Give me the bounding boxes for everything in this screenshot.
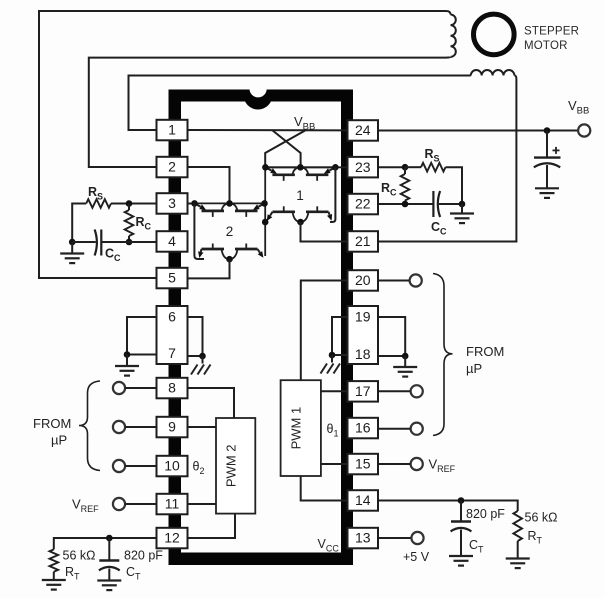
transistor pair Q1 upper (bridge 1)	[265, 166, 335, 168]
wire: pin 2 to bridge2 center	[188, 167, 230, 203]
svg-text:FROM: FROM	[33, 416, 71, 431]
svg-text:20: 20	[355, 272, 371, 288]
wire: pin18 chassis stem	[331, 355, 333, 363]
terminal pin 10 input	[113, 460, 125, 472]
wire: RT to ground	[53, 572, 55, 580]
pin 21	[348, 231, 379, 252]
wire: pin 7 right stub	[188, 355, 203, 357]
svg-text:820 pF: 820 pF	[124, 549, 163, 563]
svg-text:12: 12	[164, 530, 180, 546]
svg-text:18: 18	[355, 346, 371, 362]
svg-text:11: 11	[165, 496, 180, 512]
wire: terminal to pin 10	[125, 465, 156, 467]
junction Rs/Rc right top	[402, 164, 409, 171]
wire: pin5 loop to motor winding 1 top	[39, 11, 451, 278]
wire: pin 8 to PWM2 top	[188, 388, 235, 418]
junction CT left	[106, 535, 113, 542]
wire: bridge1 emitters to pin 21	[301, 222, 350, 242]
wire: pin 20 to PWM1 top	[301, 281, 348, 381]
IC package bottom bar	[169, 553, 354, 566]
resistor RC left	[125, 210, 134, 236]
terminal VBB	[578, 124, 590, 136]
terminal VREF right	[411, 458, 423, 470]
pin 10	[157, 456, 188, 477]
wire: winding 1 bottom to pin 2 loop	[89, 57, 451, 167]
terminal pin 17	[411, 385, 423, 397]
block PWM 2	[216, 418, 255, 514]
wire: CT left stem	[108, 538, 110, 560]
pin 24	[348, 120, 379, 141]
wire: pin 17 to PWM1	[321, 390, 348, 392]
svg-text:5: 5	[168, 270, 176, 286]
pin 5	[157, 268, 188, 289]
pin 22	[348, 194, 379, 215]
wire: RC right stubs	[404, 167, 406, 174]
wire: pin 17 to terminal	[378, 390, 411, 392]
transistor pair Q2 lower (bridge 2)	[202, 248, 225, 251]
resistor RS left	[86, 199, 111, 208]
ground CC right	[450, 214, 474, 224]
ground pins 19/18	[393, 367, 417, 377]
svg-text:56 kΩ: 56 kΩ	[525, 511, 558, 525]
pin 16	[348, 418, 379, 439]
junction pin18 right	[402, 353, 409, 360]
wire: CC right to ground node	[439, 203, 462, 205]
junction pin18 left	[329, 352, 336, 359]
IC package right bar	[341, 90, 353, 566]
pin 17	[348, 381, 379, 402]
wire: pin 14 to RT corner	[378, 501, 518, 512]
wire: pin 15 to PWM1	[321, 463, 348, 465]
pin 9	[157, 417, 188, 438]
svg-text:13: 13	[355, 530, 371, 546]
ground CT right	[449, 556, 473, 566]
capacitor C-VBB curved plate	[534, 163, 560, 167]
capacitor CC right straight plate	[432, 191, 434, 217]
pin 20	[348, 270, 379, 291]
IC orientation notch cut	[250, 89, 267, 98]
stepper motor circle	[474, 14, 515, 55]
wire: winding 2 to pin 21	[378, 76, 516, 242]
pin 3	[157, 193, 188, 214]
transistor pair Q1 lower (bridge 1)	[273, 210, 296, 213]
svg-text:6: 6	[168, 309, 176, 325]
wire: pin 14 to PWM1 bottom	[301, 476, 348, 501]
wire: bridge1 top rail to pin 23	[265, 166, 349, 168]
wire: pin 24 to VBB terminal	[378, 130, 578, 132]
svg-text:820 pF: 820 pF	[466, 507, 505, 521]
wire: pin 11 to PWM2	[188, 503, 217, 505]
IC package left bar	[169, 90, 182, 566]
wire: pin 7 left stub	[127, 354, 157, 356]
wire: RS to corner down	[446, 167, 463, 204]
svg-text:3: 3	[168, 195, 176, 211]
svg-text:2: 2	[226, 224, 234, 239]
wire: RT right to ground	[517, 541, 519, 559]
pin 1	[157, 120, 188, 141]
svg-text:22: 22	[355, 196, 371, 212]
ground RT left	[42, 580, 66, 590]
wire: pin 20 to terminal	[378, 280, 410, 282]
wire: pin 12 left to RT corner	[54, 538, 157, 549]
pin 4	[157, 231, 188, 252]
svg-text:9: 9	[168, 419, 176, 435]
capacitor CT left curved plate	[99, 567, 120, 571]
wire: pin 23 to node	[378, 166, 405, 168]
capacitor C-VBB polarized stem	[546, 131, 548, 157]
ground pins 6/7	[115, 366, 139, 376]
wire: pin 3 to bridge2 top rail	[188, 203, 195, 205]
pin box 19-18	[348, 306, 379, 364]
terminal pin 8 input	[113, 382, 125, 394]
capacitor CC right curved plate	[438, 191, 440, 217]
brace right FROM uP	[433, 274, 453, 436]
svg-text:1: 1	[296, 188, 304, 203]
wire: terminal to pin 8	[125, 387, 156, 389]
wire: X-cross left branch	[272, 130, 301, 167]
wire: pin 12 to PWM2 bottom	[188, 514, 236, 538]
svg-text:4: 4	[168, 233, 176, 249]
junction CC right	[459, 201, 466, 208]
wire: node to RS	[405, 166, 421, 168]
ground CT left	[97, 581, 121, 591]
svg-text:8: 8	[168, 380, 176, 396]
wire: bridge1 right rail	[330, 167, 335, 222]
wire: pin 4 to CC right plate	[101, 241, 156, 243]
wire: X-cross right branch	[265, 130, 306, 167]
wire: CC right ground stem	[461, 204, 463, 214]
pin 14	[348, 490, 379, 511]
chassis ground pins 6/7	[191, 365, 211, 375]
svg-text:15: 15	[355, 456, 371, 472]
capacitor C-VBB plus sign	[553, 147, 560, 154]
resistor RS right	[421, 163, 446, 172]
junction CT right	[458, 497, 465, 504]
wire: pin 19 right loop	[378, 317, 405, 356]
pin 13	[348, 528, 379, 549]
wire: CT right stem	[460, 501, 462, 522]
resistor RT left	[50, 549, 59, 571]
pin 11	[157, 494, 188, 515]
ground CC left	[60, 254, 84, 264]
svg-text:FROM: FROM	[466, 344, 504, 359]
svg-text:17: 17	[355, 383, 371, 399]
pin 12	[157, 528, 188, 549]
svg-text:µP: µP	[51, 433, 67, 448]
terminal +5V	[411, 532, 423, 544]
wire: pin 16 to terminal	[378, 428, 411, 430]
resistor RT right	[513, 511, 522, 541]
svg-text:56 kΩ: 56 kΩ	[63, 549, 96, 563]
svg-text:µP: µP	[466, 361, 482, 376]
junction RC bottom	[126, 239, 133, 246]
capacitor C-VBB top plate	[534, 156, 561, 158]
junction CC left	[69, 239, 76, 246]
wire: bridge2 left rail	[194, 203, 204, 259]
wire: bridge1 left/bridge2 right shared rail	[264, 167, 266, 256]
wire: RS right to node	[111, 203, 129, 205]
wire: terminal to pin 9	[125, 426, 156, 428]
svg-text:24: 24	[355, 122, 371, 138]
block PWM 1	[281, 380, 321, 476]
junction pin7 right	[199, 353, 206, 360]
brace left FROM uP	[79, 381, 100, 471]
svg-text:16: 16	[355, 420, 371, 436]
wire: pin 1 to pin 24 VBB line	[188, 129, 350, 131]
wire: pin18 ground stem	[404, 356, 406, 367]
svg-text:23: 23	[355, 159, 371, 175]
capacitor CC left curved plate	[95, 230, 97, 256]
wire: pin 13 to +5V terminal	[378, 537, 411, 539]
capacitor CT left top plate	[99, 559, 119, 561]
wire: CC left plate to corner	[72, 241, 96, 243]
transistor pair Q2 upper (bridge 2)	[195, 202, 265, 204]
wire: RS left to corner	[72, 204, 86, 243]
svg-text:14: 14	[355, 492, 371, 508]
junction VBB	[544, 127, 551, 134]
wire: pin 18 right stub	[378, 355, 405, 357]
node bridge1 left rail junction	[262, 219, 269, 226]
wire: pin 15 to terminal	[378, 463, 411, 465]
capacitor CT right curved plate	[451, 528, 472, 532]
pin 23	[348, 157, 379, 178]
svg-text:10: 10	[164, 458, 180, 474]
svg-text:21: 21	[355, 233, 371, 249]
wire: pin 6 left loop	[127, 317, 157, 355]
pin 2	[157, 157, 188, 178]
capacitor CT right top plate	[451, 520, 471, 522]
svg-text:+5 V: +5 V	[403, 550, 430, 564]
junction pin7 left	[124, 351, 131, 358]
junction Rs/Rc top	[126, 200, 133, 207]
wire: RC stubs	[128, 204, 130, 211]
pin 15	[348, 454, 379, 475]
terminal pin 9 input	[113, 421, 125, 433]
terminal pin 20	[410, 274, 422, 286]
wire: bridge2 emitters to pin 5	[188, 259, 230, 278]
wire: pin 9 to PWM2	[188, 426, 217, 428]
junction RC right bottom	[402, 201, 409, 208]
wire: pin 18 left stub	[332, 354, 348, 356]
wire: pin7 chassis stem	[202, 356, 204, 364]
inductor L1 motor winding 1 (vertical coil)	[451, 15, 456, 57]
svg-text:7: 7	[168, 345, 176, 361]
wire: CC ground stem	[71, 242, 73, 254]
wire: pin 6 right loop	[188, 317, 203, 356]
svg-text:MOTOR: MOTOR	[524, 40, 568, 52]
terminal VREF left	[113, 498, 125, 510]
IC orientation notch bulge	[244, 95, 273, 110]
terminal pin 16	[411, 423, 423, 435]
wire: CT left lower stem	[108, 569, 110, 581]
capacitor C-VBB lower stem	[546, 165, 548, 188]
wire: pin7 ground stem	[126, 355, 128, 367]
wire: pin 19 left loop	[332, 317, 348, 355]
chassis ground pins 19/18	[321, 364, 341, 374]
ground RT right	[506, 559, 530, 569]
svg-text:STEPPER: STEPPER	[524, 26, 579, 38]
svg-text:PWM 1: PWM 1	[289, 407, 304, 450]
capacitor CC left straight plate	[100, 230, 102, 256]
wire: pin1 loop to motor winding 2	[129, 76, 471, 131]
wire: CT right lower stem	[460, 530, 462, 557]
wire: pin 22 to CC	[378, 203, 433, 205]
pin 8	[157, 378, 188, 399]
inductor L2 motor winding 2 (horizontal coil)	[471, 70, 515, 75]
ground VBB cap	[535, 188, 559, 198]
IC package top bar	[169, 90, 354, 102]
svg-text:PWM 2: PWM 2	[224, 444, 239, 487]
svg-text:1: 1	[168, 122, 176, 138]
wire: VREF to pin 11	[125, 503, 156, 505]
svg-text:2: 2	[168, 159, 176, 175]
pin box 6-7	[157, 306, 188, 364]
svg-text:19: 19	[355, 309, 371, 325]
resistor RC right	[401, 174, 410, 201]
wire: pin 3 to Rs/Rc node	[129, 203, 157, 205]
